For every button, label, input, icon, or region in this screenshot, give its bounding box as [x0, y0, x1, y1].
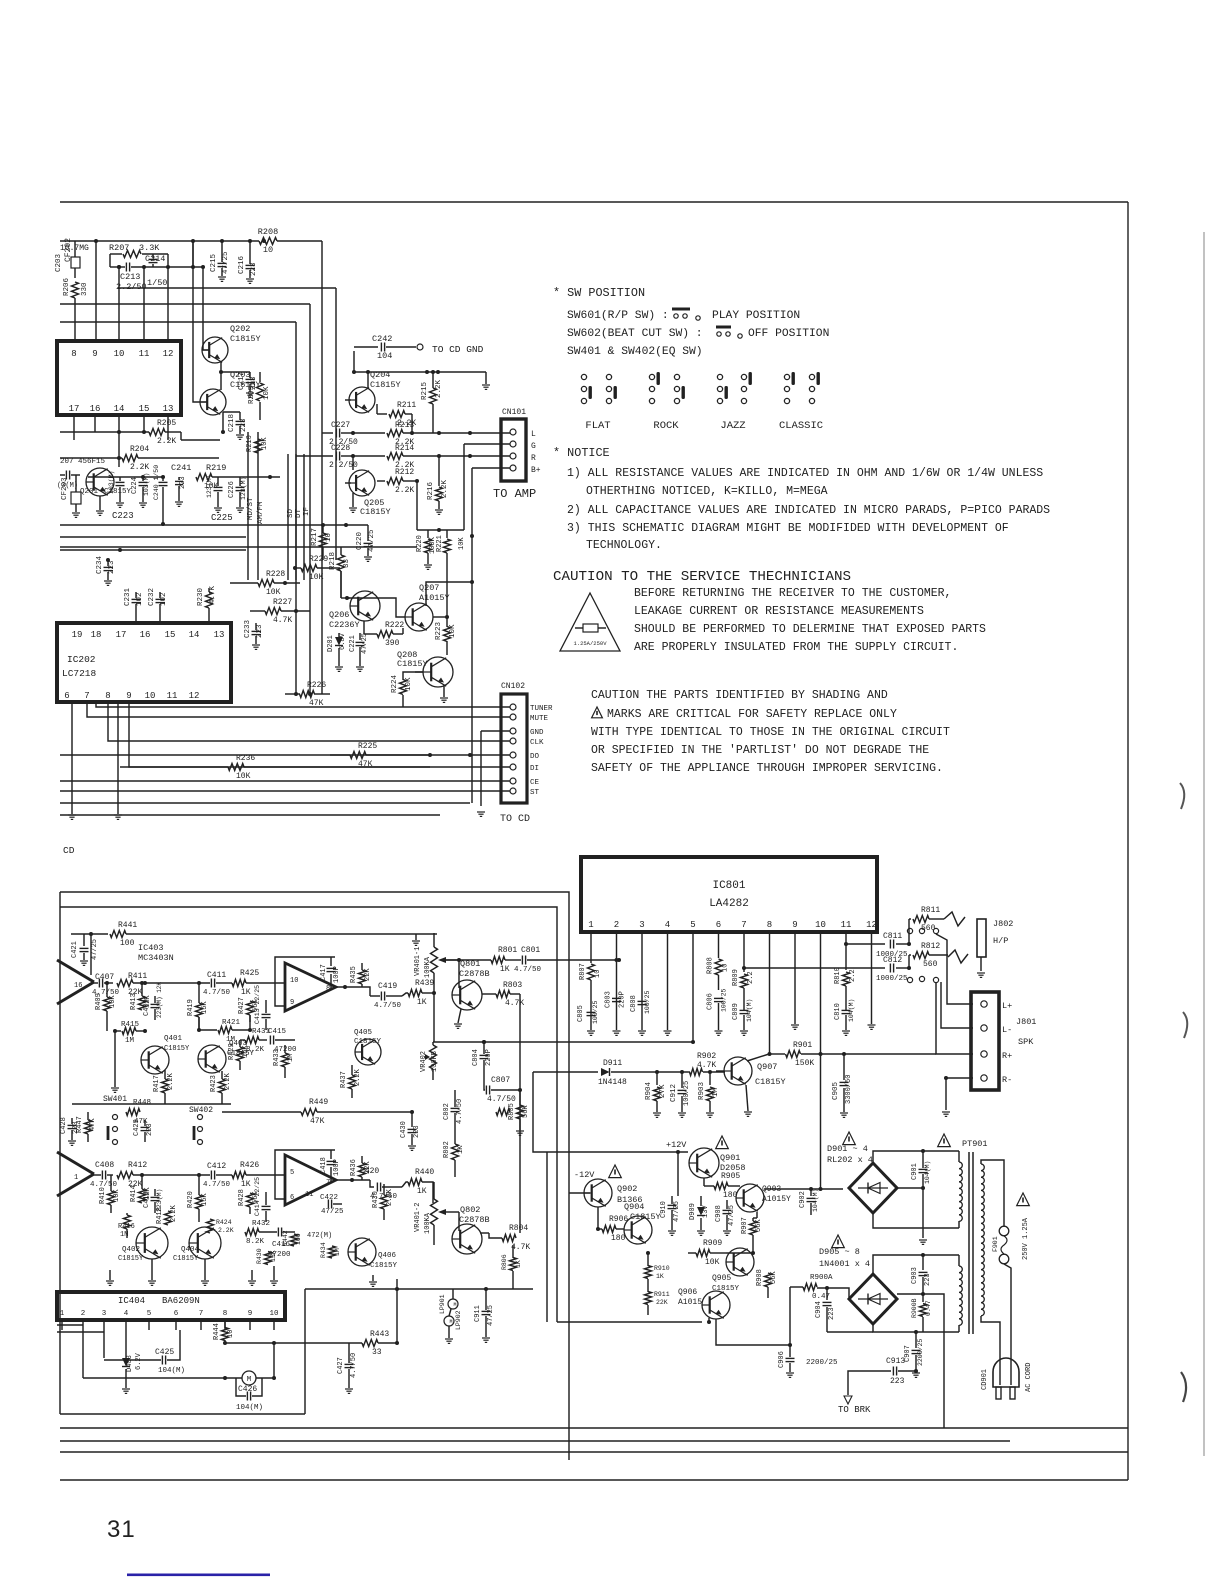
label caution l3: [634, 623, 986, 636]
resistor R430: [372, 1184, 394, 1220]
connector J801: [971, 992, 1036, 1090]
wire bus h1: [118, 287, 336, 289]
scan mark 2: [1183, 1012, 1187, 1038]
svg-text:7: 7: [741, 920, 746, 930]
capacitor C419: [360, 982, 402, 1010]
svg-text:220P: 220P: [485, 1049, 493, 1066]
capacitor C410: [143, 1189, 163, 1213]
svg-text:10K: 10K: [405, 677, 413, 691]
svg-text:16: 16: [140, 630, 151, 640]
svg-text:2) ALL CAPACITANCE VALUES ARE: 2) ALL CAPACITANCE VALUES ARE INDICATED …: [567, 504, 1050, 517]
capacitor C806: [707, 988, 728, 1035]
capacitor C422: [320, 1194, 344, 1216]
svg-text:DT: DT: [295, 508, 303, 518]
svg-text:Q905: Q905: [712, 1274, 731, 1283]
IC202 bottom pin labels: [64, 691, 199, 701]
svg-text:1K: 1K: [656, 1273, 664, 1280]
wire vert pin9: [95, 241, 97, 341]
label 10.7MG: [60, 244, 89, 253]
ground stub 8: [0, 0, 1, 1]
resistor R429: [228, 1040, 250, 1070]
svg-text:104(M): 104(M): [158, 1367, 185, 1375]
svg-text:C904: C904: [815, 1301, 823, 1318]
svg-text:100: 100: [120, 939, 135, 948]
svg-text:PLAY POSITION: PLAY POSITION: [712, 310, 800, 322]
resistor R442: [282, 1230, 341, 1258]
resistor R433: [273, 1045, 295, 1078]
resistor R902 sym: [688, 1069, 725, 1076]
lamp LP901: [439, 1289, 458, 1314]
wire cn102 tuner: [96, 702, 510, 707]
svg-text:C418: C418: [320, 1157, 328, 1174]
svg-text:R441: R441: [118, 921, 137, 930]
warning triangle d905: [832, 1235, 845, 1248]
svg-text:C218: C218: [228, 414, 236, 432]
svg-text:104: 104: [377, 351, 392, 361]
label Q905: [712, 1274, 731, 1283]
wire right vert 569 ext: [0, 0, 1, 1]
svg-text:2.2K: 2.2K: [167, 1072, 175, 1090]
svg-text:1M: 1M: [125, 1037, 135, 1045]
svg-text:100/25: 100/25: [721, 988, 728, 1012]
svg-text:R805: R805: [508, 1103, 516, 1120]
wire Q204 collector: [353, 351, 355, 372]
svg-text:8: 8: [223, 1310, 228, 1318]
resistor R444: [213, 1320, 235, 1343]
svg-text:C242: C242: [372, 334, 392, 344]
svg-text:C413 22/25: C413 22/25: [254, 985, 261, 1024]
wire vr1 top gnd: [0, 0, 1, 1]
resistor R209: [248, 372, 271, 420]
wire G to CN101: [464, 444, 510, 530]
svg-text:SHOULD BE PERFORMED TO DELERMI: SHOULD BE PERFORMED TO DELERMINE THAT EX…: [634, 623, 986, 636]
motor M401: [242, 1371, 256, 1385]
svg-text:JAZZ: JAZZ: [720, 420, 745, 432]
svg-text:IC403: IC403: [138, 943, 164, 953]
svg-text:R437: R437: [340, 1071, 348, 1088]
resistor R409: [95, 981, 117, 1031]
svg-text:4: 4: [665, 920, 670, 930]
svg-text:Q907: Q907: [757, 1062, 777, 1072]
transistor Q801: [452, 959, 490, 1010]
wire Q204-Q205 join: [410, 414, 417, 530]
svg-text:C215: C215: [210, 253, 218, 272]
svg-text:C417: C417: [320, 964, 328, 981]
resistor R441: [71, 921, 437, 975]
resistor R911: [645, 1279, 670, 1315]
wire sig v SD: [287, 454, 295, 580]
resistor R424: [207, 1219, 234, 1234]
grounds under amp transistors: [106, 1275, 377, 1286]
svg-text:R205: R205: [157, 419, 176, 428]
wire bridge1 top: [873, 1149, 959, 1163]
svg-text:10: 10: [325, 532, 333, 542]
svg-text:R904: R904: [645, 1081, 653, 1100]
svg-text:7: 7: [199, 1310, 204, 1318]
IC801 box: [581, 857, 877, 932]
svg-text:R439: R439: [415, 979, 434, 988]
svg-text:C203: C203: [55, 253, 63, 272]
svg-text:10: 10: [722, 964, 730, 972]
svg-text:C428: C428: [60, 1117, 68, 1134]
svg-text:560: 560: [923, 960, 938, 969]
svg-text:CLK: CLK: [530, 739, 544, 747]
capacitor C811: [844, 932, 911, 959]
capacitor C418: [275, 1150, 341, 1199]
svg-text:R228: R228: [266, 570, 285, 579]
transistor Q208: [397, 650, 453, 687]
svg-text:6: 6: [716, 920, 721, 930]
wire Q907 collector: [747, 1054, 769, 1061]
resistor R447: [76, 1112, 97, 1142]
switch glyph SW602: [716, 327, 742, 338]
opamp IC403b input stage: [57, 1152, 94, 1196]
svg-text:D901 ~ 4: D901 ~ 4: [827, 1144, 868, 1154]
resistor R811: [909, 906, 944, 944]
svg-text:2200/25: 2200/25: [806, 1359, 838, 1367]
svg-text:102: 102: [136, 592, 144, 606]
resistor R810: [834, 945, 857, 986]
svg-text:R440: R440: [415, 1168, 434, 1177]
svg-text:C812: C812: [883, 956, 902, 965]
svg-text:10K: 10K: [449, 624, 457, 638]
svg-text:R414: R414: [130, 1185, 138, 1202]
capacitor C417: [275, 957, 341, 1006]
wire J801 R+: [936, 983, 973, 1054]
svg-text:0.47: 0.47: [925, 1300, 932, 1316]
wire bridge1 bot: [873, 1213, 959, 1228]
svg-text:R436: R436: [350, 1159, 358, 1176]
svg-text:ST: ST: [530, 789, 540, 797]
svg-text:10: 10: [269, 1310, 279, 1318]
capacitor C910: [660, 1196, 681, 1235]
svg-text:Q206: Q206: [329, 610, 349, 620]
svg-text:47/25: 47/25: [368, 529, 376, 552]
bridge rectifier D901-4: [849, 1163, 897, 1213]
capacitor C411: [160, 971, 231, 997]
svg-text:C231: C231: [124, 587, 132, 606]
svg-text:10: 10: [145, 691, 156, 701]
resistor R427: [238, 997, 260, 1022]
capacitor C226: [206, 475, 233, 523]
svg-text:R811: R811: [921, 906, 940, 915]
svg-text:C1815Y: C1815Y: [370, 380, 401, 390]
svg-text:CE: CE: [530, 779, 540, 787]
svg-text:472(M): 472(M): [307, 1232, 332, 1240]
resistor R432: [245, 1220, 270, 1246]
resistor R808: [707, 945, 730, 990]
IC404 box: [57, 1292, 285, 1320]
svg-text:R226: R226: [307, 681, 326, 690]
svg-text:R807: R807: [579, 963, 587, 980]
wire stub: [0, 0, 1, 1]
svg-text:8: 8: [767, 920, 772, 930]
svg-text:10K: 10K: [309, 573, 324, 582]
wire bus bottom2: [60, 546, 417, 548]
svg-text:5: 5: [290, 1169, 294, 1177]
svg-text:223(M) 12K: 223(M) 12K: [156, 982, 163, 1018]
svg-text:C1815Y: C1815Y: [164, 1045, 190, 1053]
capacitor C231: [124, 587, 144, 623]
svg-text:C430: C430: [400, 1121, 408, 1138]
svg-text:4.7K: 4.7K: [505, 999, 524, 1008]
resistor R227: [250, 598, 310, 625]
svg-text:15K: 15K: [201, 1193, 209, 1206]
svg-text:R-: R-: [1002, 1075, 1012, 1085]
svg-text:LP902: LP902: [455, 1310, 462, 1330]
svg-text:13: 13: [163, 404, 174, 414]
wire r900a left: [788, 1287, 792, 1347]
svg-text:CD: CD: [63, 845, 75, 856]
svg-text:100/25: 100/25: [683, 1081, 691, 1106]
svg-text:R900B: R900B: [911, 1298, 918, 1318]
svg-text:R425: R425: [240, 969, 259, 978]
wire pin4 gnd: [664, 945, 672, 1035]
svg-text:C221: C221: [349, 635, 357, 652]
svg-text:10K: 10K: [705, 1258, 720, 1267]
resistor R417: [153, 1070, 175, 1100]
svg-text:11: 11: [305, 1191, 313, 1199]
svg-text:10K: 10K: [109, 995, 117, 1008]
capacitor C809: [732, 988, 753, 1035]
svg-text:C414 22/25: C414 22/25: [254, 1177, 261, 1216]
svg-text:C908: C908: [715, 1205, 723, 1222]
svg-text:R810: R810: [834, 967, 842, 984]
transformer PT901 primary: [981, 1164, 984, 1316]
wire vert pin10: [117, 265, 121, 341]
svg-text:4.7K: 4.7K: [273, 616, 292, 625]
svg-text:390: 390: [385, 639, 400, 648]
resistor R421: [197, 1015, 252, 1044]
svg-text:* SW POSITION: * SW POSITION: [553, 286, 645, 300]
IC202 top pin labels: [72, 630, 225, 640]
svg-text:100KA: 100KA: [424, 956, 432, 978]
svg-text:TO CD GND: TO CD GND: [432, 344, 484, 355]
svg-text:5: 5: [147, 1310, 152, 1318]
svg-text:1: 1: [588, 920, 593, 930]
svg-text:Q201: Q201: [80, 488, 99, 496]
transistor Q207: [347, 580, 474, 631]
label CAUTION header: [553, 569, 851, 585]
wire amp top rail1: [60, 892, 569, 1460]
svg-text:R804: R804: [509, 1224, 528, 1233]
svg-text:1M: 1M: [226, 1036, 236, 1044]
svg-text:2.2: 2.2: [849, 969, 857, 982]
svg-text:7: 7: [84, 691, 89, 701]
resistor R220: [416, 528, 464, 569]
svg-text:AC CORD: AC CORD: [1025, 1363, 1033, 1392]
wire y1360 rail: [0, 0, 1, 1]
label Q903: [762, 1185, 791, 1204]
svg-text:123(M): 123(M): [206, 475, 213, 498]
resistor R440: [402, 1168, 434, 1203]
svg-text:LC7218: LC7218: [62, 668, 97, 679]
svg-text:WITH TYPE IDENTICAL TO THOSE I: WITH TYPE IDENTICAL TO THOSE IN THE ORIG…: [591, 726, 950, 739]
svg-text:R448: R448: [133, 1099, 151, 1107]
resistor R221: [436, 530, 466, 616]
wire Q207 collector: [0, 0, 1, 1]
label caution2 l4: [591, 744, 929, 757]
capacitor C430: [400, 1120, 421, 1150]
wire amp top rail2: [60, 907, 557, 1322]
wire amp left border: [59, 892, 61, 1414]
svg-text:4.7/50: 4.7/50: [514, 966, 542, 974]
svg-text:C803: C803: [605, 991, 613, 1008]
svg-text:R430: R430: [372, 1191, 380, 1208]
svg-text:C409: C409: [143, 999, 151, 1016]
svg-text:M: M: [247, 1376, 252, 1384]
svg-text:223: 223: [179, 476, 187, 489]
resistor R204: [60, 445, 219, 472]
svg-text:BA6209N: BA6209N: [162, 1296, 200, 1306]
svg-text:104(M): 104(M): [924, 1161, 931, 1184]
svg-text:9: 9: [792, 920, 797, 930]
svg-text:223: 223: [240, 418, 248, 432]
resistor R414: [130, 1173, 152, 1203]
svg-text:R910: R910: [654, 1265, 670, 1272]
IC202 box: [57, 623, 231, 702]
scan mark 1: [1180, 783, 1184, 809]
svg-text:R+: R+: [1002, 1051, 1012, 1061]
svg-text:RL202 x 4: RL202 x 4: [827, 1155, 873, 1165]
capacitor C224: [131, 473, 150, 508]
wire R220 join: [0, 0, 1, 1]
svg-text:C410: C410: [143, 1191, 151, 1208]
wire pin9 down: [791, 945, 799, 1029]
svg-text:R427: R427: [238, 997, 246, 1014]
wire bridge2 top: [873, 1253, 959, 1274]
svg-text:R209: R209: [248, 386, 256, 404]
svg-text:C224: C224: [131, 477, 139, 494]
svg-text:47/25: 47/25: [222, 251, 230, 274]
resistor R418: [156, 1204, 178, 1225]
svg-text:16: 16: [90, 404, 101, 414]
svg-text:SAFETY OF THE APPLIANCE THROUG: SAFETY OF THE APPLIANCE THROUGH IMPROPER…: [591, 762, 943, 775]
wire opamp2 out: [336, 1178, 370, 1182]
resistor R212: [377, 468, 419, 495]
wire bus v3: [294, 322, 298, 696]
wire bridge2 bot: [827, 1324, 959, 1332]
wire motor conns: [0, 0, 1, 1]
svg-text:10: 10: [290, 977, 298, 985]
resistor R903: [698, 1070, 720, 1117]
svg-text:CAUTION TO THE SERVICE THECHNI: CAUTION TO THE SERVICE THECHNICIANS: [553, 569, 851, 585]
svg-text:16: 16: [74, 982, 82, 990]
fuse warning triangle: [560, 593, 620, 651]
capacitor C242: [354, 334, 484, 361]
svg-text:17: 17: [116, 630, 127, 640]
svg-text:CF202: CF202: [64, 238, 73, 262]
IC404 pin labels: [60, 1310, 279, 1318]
capacitor C221: [349, 633, 369, 671]
svg-text:IC202: IC202: [67, 654, 96, 665]
wire C242 left: [366, 370, 370, 388]
svg-text:DO: DO: [530, 753, 540, 761]
wire y1385 rail: [0, 0, 1, 1]
svg-text:R210: R210: [246, 435, 254, 452]
wire bridge1 right: [0, 0, 1, 1]
svg-text:R410: R410: [99, 1187, 107, 1204]
wire cn102 clk: [108, 702, 510, 741]
capacitor C228: [296, 444, 358, 470]
wire opamp1 out: [336, 985, 360, 989]
svg-text:A1015Y: A1015Y: [762, 1195, 791, 1204]
capacitor C905: [832, 1054, 853, 1117]
wire cn102 st: [60, 790, 510, 792]
svg-text:R434: R434: [320, 1242, 327, 1258]
resistor R423: [210, 1071, 232, 1100]
switch diagram JAZZ: [717, 372, 752, 432]
svg-text:10: 10: [594, 970, 602, 978]
svg-text:22K: 22K: [364, 968, 372, 981]
wire bus h3: [60, 321, 296, 323]
capacitor C213: [110, 263, 203, 293]
capacitor C234: [96, 555, 116, 585]
svg-text:R412: R412: [128, 1161, 147, 1170]
transistor Q204: [345, 370, 401, 413]
svg-text:3: 3: [102, 1310, 107, 1318]
switch diagram ROCK: [649, 372, 685, 432]
switch diagram CLASSIC: [779, 372, 823, 432]
svg-text:2.2/50: 2.2/50: [116, 282, 147, 292]
svg-text:100/25: 100/25: [644, 990, 651, 1014]
pot VR401-1: [412, 933, 461, 1042]
svg-text:R230: R230: [197, 587, 205, 606]
opamp U1b: [285, 1155, 336, 1205]
resistor R211: [377, 401, 416, 428]
svg-text:Q401: Q401: [164, 1035, 183, 1043]
wire sig v IF: [303, 454, 311, 580]
wire bottom border: [60, 1479, 1128, 1481]
svg-text:R409: R409: [95, 993, 103, 1010]
label Q905b: [712, 1285, 740, 1293]
svg-text:Q405: Q405: [354, 1029, 373, 1037]
transistor Q406: [348, 1238, 376, 1266]
svg-text:C807: C807: [491, 1076, 510, 1085]
svg-text:18: 18: [91, 630, 102, 640]
svg-text:TUNER: TUNER: [530, 705, 553, 713]
wire bottom bus1: [60, 1245, 533, 1414]
svg-text:10K: 10K: [263, 386, 271, 400]
svg-text:H/P: H/P: [993, 936, 1008, 946]
resistor R229: [293, 555, 340, 582]
svg-text:103(M): 103(M): [143, 473, 150, 496]
svg-text:11: 11: [139, 349, 150, 359]
connector CN101: [501, 408, 541, 481]
wire primary top: [981, 1160, 1004, 1226]
capacitor C429: [133, 1119, 154, 1142]
svg-text:10K: 10K: [113, 1189, 121, 1202]
resistor R809: [732, 945, 755, 988]
svg-text:6: 6: [64, 691, 69, 701]
label caution2 l2: [607, 708, 897, 721]
svg-text:C225: C225: [211, 513, 233, 523]
svg-text:223: 223: [256, 624, 264, 638]
label page number: [107, 1516, 136, 1543]
wire pin8 down: [768, 945, 772, 1056]
svg-text:10K: 10K: [266, 588, 281, 597]
wire IC201 pin stubs: [74, 415, 168, 467]
scan edge line: [1203, 232, 1205, 1456]
wire Q801 emitter gnd: [454, 1009, 462, 1028]
label caution2 l5: [591, 762, 943, 775]
svg-text:4.7/50: 4.7/50: [203, 1181, 231, 1189]
svg-text:223: 223: [828, 1307, 836, 1320]
svg-text:C2878B: C2878B: [459, 969, 490, 979]
svg-text:R206: R206: [63, 277, 71, 296]
svg-text:C906: C906: [778, 1351, 786, 1368]
resistor R901 150K: [769, 1041, 936, 1068]
